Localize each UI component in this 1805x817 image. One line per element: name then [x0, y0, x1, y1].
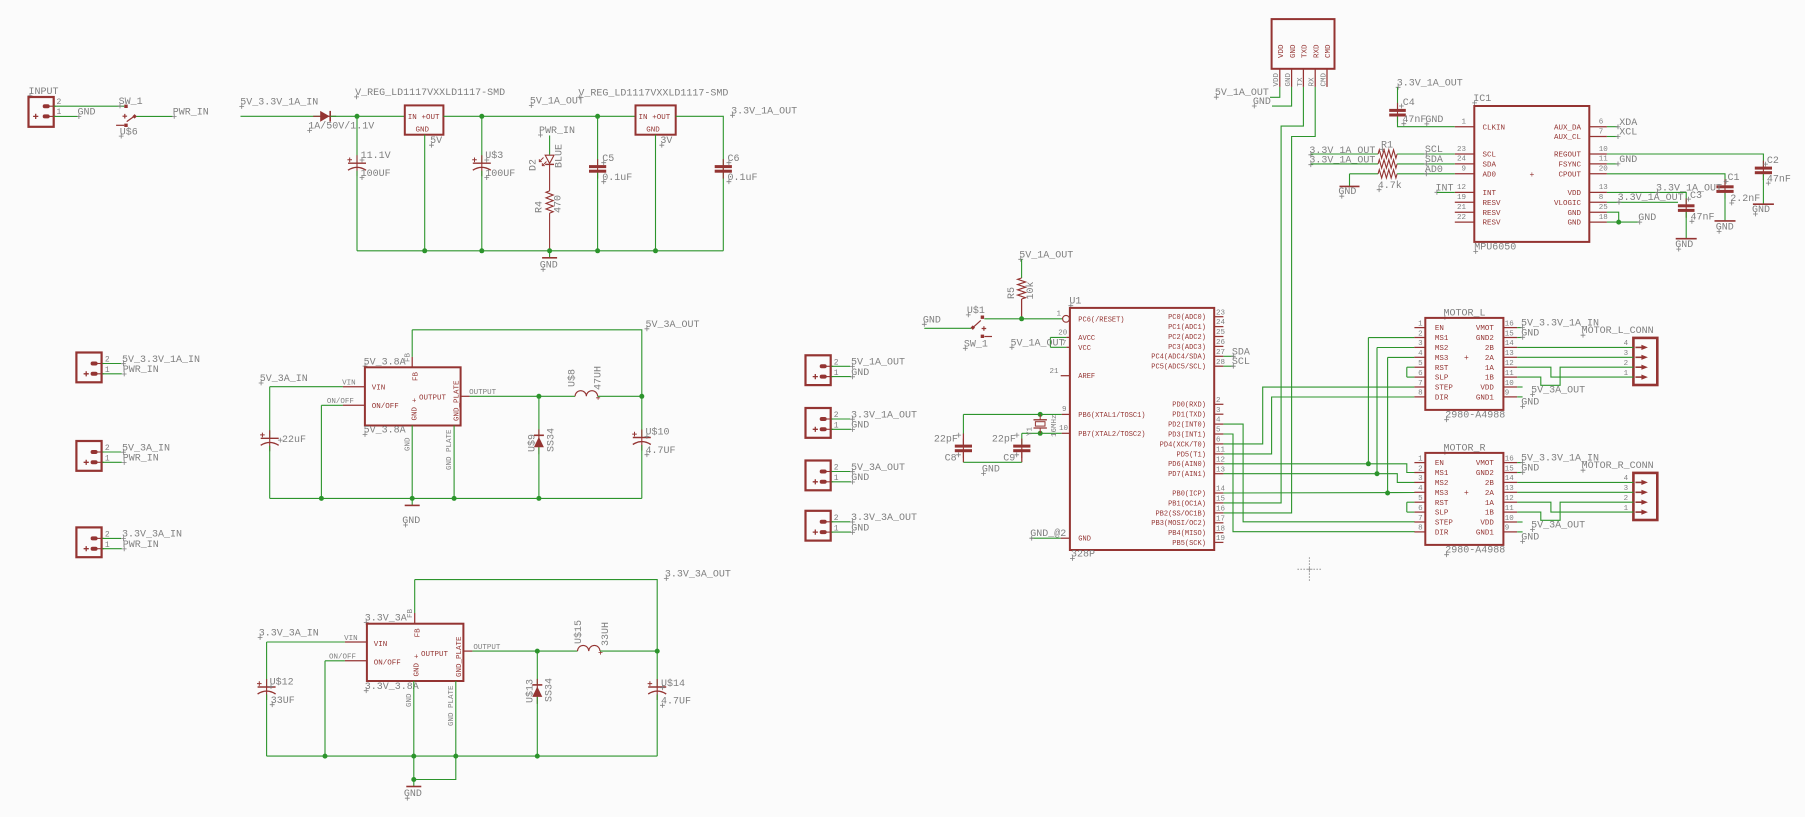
IC1 pin 22 RESV stub [1455, 221, 1475, 223]
wire 3.3V_1A_OUT to cap C4 [1397, 87, 1399, 109]
net label 3.3V_1A_OUT at SDA pullup [1308, 156, 1375, 167]
regulator U$2 pin label GND [416, 127, 430, 135]
wire diode D1 to regulator U$2 IN [330, 115, 405, 117]
wire C8-C9 ground link [963, 461, 1021, 463]
svg-text:2A: 2A [1485, 490, 1495, 498]
net label 5V_1A_OUT [529, 97, 584, 108]
U1 pin 2 PD0(RXD) stub [1214, 403, 1223, 405]
net label PWR_IN at connector [122, 454, 159, 465]
wire to capacitor U$3 top [481, 116, 483, 163]
svg-text:REGOUT: REGOUT [1554, 152, 1582, 160]
wire REGOUT to cap C2 [1607, 154, 1764, 167]
IC U1 ATmega328P body [1070, 308, 1214, 550]
U1 pin label PB7(XTAL2/TOSC2) [1078, 431, 1145, 439]
wire 5V_3A_OUT top rail [412, 330, 642, 397]
pin number 9 [1062, 406, 1067, 414]
driver pin label MS1 [1435, 335, 1449, 343]
svg-text:MOTOR_R_CONN: MOTOR_R_CONN [1582, 461, 1654, 472]
driver pin 3 MS2 stub [1414, 346, 1425, 348]
svg-text:C2: C2 [1767, 156, 1779, 167]
driver pin label GND1 [1476, 530, 1495, 538]
svg-text:INT: INT [1483, 190, 1497, 198]
svg-text:5V_1A_OUT: 5V_1A_OUT [1019, 250, 1073, 261]
driver pin label GND1 [1476, 395, 1495, 403]
svg-text:3.3V_3.8A: 3.3V_3.8A [365, 682, 419, 693]
connector MOTOR_R_CONN designator [1581, 461, 1654, 472]
pin number 12 [1505, 360, 1514, 368]
module pin label GND_PLATE [453, 380, 461, 421]
wire regulator U$4 GND to ground rail [655, 135, 657, 251]
svg-text:PWR_IN: PWR_IN [123, 540, 159, 551]
svg-text:U$13: U$13 [525, 679, 537, 703]
pin number 4 [1418, 350, 1423, 358]
module pin label GND_PLATE [456, 636, 464, 677]
driver pin label MS3 [1435, 490, 1449, 498]
pin number 8 [1418, 525, 1423, 533]
wire connector pin1 to GND label [831, 428, 851, 430]
svg-text:2: 2 [57, 98, 62, 107]
diode designator U$13 [525, 679, 537, 703]
IC1 pin label SCL [1483, 152, 1497, 160]
wire PWR_IN to LED D2 anode [549, 136, 551, 155]
wire diode U$9 anode to ground rail [538, 447, 540, 498]
switch designator U$1 [966, 305, 985, 317]
IC1 pin 25 GND stub [1589, 211, 1607, 213]
svg-text:PC5(ADC5/SCL): PC5(ADC5/SCL) [1151, 364, 1206, 372]
svg-text:FB: FB [413, 371, 421, 381]
svg-text:2: 2 [1216, 397, 1221, 405]
module U$5 value 5V_3.8A [363, 426, 406, 437]
svg-text:SDA: SDA [1483, 162, 1497, 170]
wire 3.3V_1A_OUT to resistor R1a [1311, 153, 1378, 155]
driver pin 9 GND1 stub [1503, 396, 1517, 398]
IC1 pin label FSYNC [1558, 162, 1581, 170]
pin VCC stub [1066, 346, 1070, 348]
svg-text:EN: EN [1435, 460, 1444, 468]
svg-text:15: 15 [1505, 465, 1515, 473]
svg-text:GND +: GND + [414, 653, 422, 676]
pin number 9 [1461, 166, 1466, 174]
buck module 3.3V_3A body [367, 624, 464, 681]
svg-text:11.1V: 11.1V [361, 151, 391, 162]
svg-text:25: 25 [1216, 329, 1226, 337]
svg-text:VDD: VDD [1480, 520, 1494, 528]
wire 2B to connector pin4 [1517, 346, 1633, 348]
svg-text:2980-A4988: 2980-A4988 [1445, 546, 1505, 557]
wire diode U$13 anode to ground rail [536, 697, 538, 756]
wire resistor R1b to IC1 SDA [1397, 163, 1455, 165]
net label 5V_3A_OUT at VDD [1530, 386, 1585, 397]
resistor R5 10k [1018, 278, 1026, 299]
pin number 13 [1505, 485, 1515, 493]
resistor designator R4 [535, 201, 546, 213]
svg-text:3: 3 [1418, 475, 1423, 483]
svg-text:16: 16 [1216, 506, 1226, 514]
inductor U$8 47UH [575, 391, 600, 400]
U1 pin 15 PB1(OC1A) stub [1214, 502, 1223, 504]
wire input cap U$12 top [266, 642, 268, 687]
svg-text:PB0(ICP): PB0(ICP) [1172, 490, 1206, 498]
U1 pin label PC0(ADC0) [1168, 314, 1206, 322]
IC1 pin label AD0 [1483, 171, 1497, 179]
svg-text:GND2: GND2 [1476, 470, 1494, 478]
pin name label ON/OFF [327, 398, 354, 406]
svg-text:1: 1 [1057, 310, 1062, 318]
resistor R1b 4.7k [1378, 160, 1397, 168]
svg-text:5: 5 [1216, 427, 1221, 435]
wire ON/OFF net [325, 660, 345, 662]
net label GND at GND1 [1520, 397, 1539, 408]
connector INPUT [29, 97, 56, 127]
junction XTAL1 at crystal Y1 [1038, 412, 1043, 417]
pin number 8 [1599, 194, 1604, 202]
IC1 pin label RESV [1483, 220, 1502, 228]
connector MOTOR_R_CONN body [1633, 473, 1657, 520]
svg-text:4.7UF: 4.7UF [661, 697, 691, 708]
regulator U$4 name label [577, 88, 728, 99]
svg-text:10k: 10k [1025, 281, 1037, 299]
IC1 pin 21 RESV stub [1455, 211, 1475, 213]
U1 pin 23 PC0(ADC0) stub [1214, 316, 1223, 318]
serial connector pin label GND [1290, 44, 1298, 58]
svg-text:2B: 2B [1485, 345, 1495, 353]
pin number 26 [1216, 339, 1226, 347]
svg-text:47nF: 47nF [1767, 174, 1791, 185]
junction ground rail at C5 [595, 248, 600, 253]
svg-text:PWR_IN: PWR_IN [123, 365, 159, 376]
pin GND stub [1061, 537, 1070, 539]
svg-text:PB2(SS/OC1B): PB2(SS/OC1B) [1155, 510, 1205, 518]
svg-text:PD6(AIN0): PD6(AIN0) [1168, 461, 1206, 469]
pin name label FB [407, 608, 415, 618]
driver pin 15 GND2 stub [1503, 337, 1517, 339]
polarized capacitor U$12 33UF [257, 679, 276, 700]
svg-text:26: 26 [1216, 339, 1226, 347]
net label 5V_3.3V_1A_IN [1520, 318, 1599, 329]
svg-text:7: 7 [1418, 380, 1423, 388]
wire LED D2 cathode to resistor R4 [549, 164, 551, 191]
wire MS1 bus to MOTOR_L MS1 [1368, 337, 1414, 339]
IC value MPU6050 [1473, 243, 1516, 254]
driver pin label RST [1435, 500, 1449, 508]
svg-text:21: 21 [1457, 204, 1467, 212]
svg-text:SS34: SS34 [545, 678, 556, 702]
wire inductor U$15 to output node [600, 650, 657, 652]
wire cap C8 to ground link [962, 452, 964, 462]
LED value BLUE [555, 144, 566, 168]
pin ON/OFF stub [343, 404, 365, 406]
wire RST tie [1407, 366, 1415, 368]
svg-text:4: 4 [1216, 417, 1221, 425]
svg-text:GND: GND [406, 693, 414, 707]
junction 5V_3A_OUT at cap U$10 [639, 394, 644, 399]
svg-text:1B: 1B [1485, 510, 1495, 518]
svg-text:2B: 2B [1485, 480, 1495, 488]
pin number 24 [1216, 319, 1226, 327]
svg-text:MS1: MS1 [1435, 335, 1449, 343]
wire connector pin1 to GND label [831, 481, 851, 483]
net label GND at FSYNC [1616, 155, 1638, 166]
svg-text:CMD: CMD [1320, 72, 1328, 86]
svg-text:1: 1 [1461, 119, 1466, 127]
U1 pin label PD5(T1) [1176, 451, 1205, 459]
pin name label GND PLATE [448, 685, 456, 726]
svg-text:23: 23 [1216, 309, 1226, 317]
svg-text:PWR_IN: PWR_IN [173, 107, 209, 118]
serial connector pin label CMD [1325, 44, 1333, 58]
pin number 21 [1049, 368, 1059, 376]
svg-text:MS3: MS3 [1435, 490, 1449, 498]
svg-text:2: 2 [1418, 330, 1423, 338]
svg-text:25: 25 [1599, 204, 1609, 212]
svg-text:10: 10 [1505, 380, 1515, 388]
junction MS1 bus [1366, 461, 1371, 466]
svg-text:+: + [1530, 171, 1535, 180]
net label PWR_IN at connector [122, 365, 159, 376]
wire ON/OFF net [321, 404, 343, 406]
svg-text:10: 10 [1505, 515, 1515, 523]
U1 pin label PD4(XCK/T0) [1160, 441, 1206, 449]
svg-text:28: 28 [1216, 359, 1225, 367]
connector 3.3V_3A_IN input [76, 527, 104, 557]
capacitor C3 47nF [1678, 198, 1695, 218]
wire AUX_DA to XDA label [1607, 126, 1618, 128]
pin number 13 [1505, 350, 1515, 358]
wire module GND pin to ground rail [413, 681, 415, 756]
svg-text:GND1: GND1 [1476, 395, 1495, 403]
pin name label RX [1309, 77, 1317, 87]
U1 pin 14 PB0(ICP) stub [1214, 492, 1223, 494]
svg-text:R5: R5 [1007, 287, 1018, 299]
driver pin 11 1B stub [1503, 511, 1517, 513]
svg-text:DIR: DIR [1435, 530, 1449, 538]
wire 2B to connector pin4 [1517, 481, 1633, 483]
U1 pin 27 PC4(ADC4/SDA) stub [1214, 355, 1223, 357]
pin number 11 [1505, 370, 1515, 378]
svg-text:VDD: VDD [1567, 190, 1581, 198]
svg-text:MS1: MS1 [1435, 470, 1449, 478]
junction ground rail at U$4 GND [653, 248, 658, 253]
svg-text:5V_1A_OUT: 5V_1A_OUT [1011, 338, 1065, 349]
svg-text:8: 8 [1418, 525, 1423, 533]
svg-text:9: 9 [1461, 166, 1466, 174]
driver pin 7 STEP stub [1414, 386, 1425, 388]
driver pin label 2B [1485, 345, 1495, 353]
wire output node to diode U$9 cathode [538, 396, 540, 435]
pin number 4 [1418, 485, 1423, 493]
svg-text:5V_3A_IN: 5V_3A_IN [260, 374, 308, 385]
svg-text:GND: GND [1290, 44, 1298, 58]
pin number 6 [1599, 119, 1604, 127]
svg-text:13: 13 [1505, 485, 1515, 493]
wire CPOUT to cap C1 [1607, 174, 1725, 186]
svg-text:SCL: SCL [1483, 152, 1497, 160]
pin number 19 [1216, 535, 1225, 543]
module U$5 name 5V_3.8A [363, 357, 406, 368]
pin number 1 [1461, 119, 1466, 127]
capacitor designator C2 [1763, 156, 1779, 167]
IC designator U1 [1068, 297, 1081, 308]
wire connector pin1 to PWR_IN label [102, 373, 122, 375]
svg-text:STEP: STEP [1435, 385, 1454, 393]
wire connector pin1 to PWR_IN label [102, 548, 122, 550]
net label XDA [1616, 118, 1638, 129]
wire resistor R4 to ground rail [549, 213, 551, 251]
capacitor U$14 value 4.7UF [660, 697, 691, 708]
svg-text:AD0: AD0 [1483, 171, 1497, 179]
wire capacitor U$3 to ground rail [481, 171, 483, 251]
svg-text:2: 2 [834, 464, 839, 473]
pin number 12 [1505, 495, 1514, 503]
capacitor C2 value 47nF [1766, 174, 1791, 185]
svg-text:2: 2 [834, 411, 839, 420]
U1 pin label VCC [1078, 345, 1091, 353]
net label 5V_1A_OUT at serial VDD [1214, 88, 1269, 99]
connector MOTOR_L_CONN designator [1581, 326, 1654, 337]
resistor pack value 4.7k [1377, 180, 1402, 192]
ground symbol GND of regulator chain [540, 251, 558, 272]
pin name label OUTPUT [469, 389, 497, 397]
driver pin 14 2B stub [1503, 346, 1517, 348]
junction GND pins of IC1 [1616, 220, 1621, 225]
svg-text:VIN: VIN [344, 635, 358, 643]
pin number 1 of INPUT [57, 108, 62, 117]
svg-text:R1: R1 [1381, 141, 1393, 152]
pin number 9 [1505, 525, 1510, 533]
capacitor designator U$10 [645, 427, 670, 439]
wire connector pin1 to GND label [831, 531, 851, 533]
capacitor designator U$3 [484, 150, 503, 162]
wire AVCC [1050, 336, 1066, 338]
svg-text:1B: 1B [1485, 375, 1495, 383]
svg-text:PD3(INT1): PD3(INT1) [1168, 431, 1206, 439]
svg-text:PD4(XCK/T0): PD4(XCK/T0) [1160, 441, 1206, 449]
wire cap C5 to ground rail [597, 173, 599, 251]
wire connector pin2 to 5V_3A_IN label [102, 451, 121, 453]
wire connector pin2 to 3.3V_3A_OUT label [831, 521, 850, 523]
U1 pin label PC4(ADC4/SDA) [1151, 354, 1206, 362]
connector MOTOR_R_CONN pad 2 [1635, 500, 1648, 505]
svg-text:PB3(MOSI/OC2): PB3(MOSI/OC2) [1151, 520, 1206, 528]
IC1 pin label INT [1483, 190, 1497, 198]
driver pin 2 MS1 stub [1414, 337, 1425, 339]
LED D2 BLUE [539, 155, 554, 166]
wire cap U$14 to ground rail [656, 694, 658, 756]
junction ground rail at U$3 [479, 248, 484, 253]
capacitor designator U$14 [660, 678, 685, 690]
net label PWR_IN at connector [122, 540, 159, 551]
junction ground rail at diode U$13 [535, 754, 540, 759]
capacitor U$3 value 100UF [484, 169, 515, 180]
wire cap C1 to ground [1724, 193, 1726, 221]
pin number 2 [1418, 330, 1423, 338]
connector 3.3V_3A_OUT output [806, 511, 834, 541]
ground symbol GND at C2 [1752, 204, 1774, 217]
IC1 pin 6 AUX_DA stub [1589, 126, 1607, 128]
net label 3.3V_3A_IN [258, 629, 319, 640]
pin AREF stub [1061, 375, 1070, 377]
svg-text:14: 14 [1505, 475, 1515, 483]
junction MS3 bus [1385, 491, 1390, 496]
wire U1 GND net [1031, 537, 1061, 539]
U1 pin 18 PB4(MISO) stub [1214, 532, 1223, 534]
wire AUX_CL to XCL label [1607, 136, 1618, 138]
voltage regulator U$4 LD1117 body [636, 105, 676, 134]
pin number 21 [1457, 204, 1467, 212]
IC1 pin label RESV [1483, 200, 1502, 208]
net label SDA [1424, 155, 1443, 166]
svg-text:VMOT: VMOT [1476, 325, 1495, 333]
svg-text:2: 2 [105, 356, 110, 365]
pin number 15 [1216, 496, 1226, 504]
wire crystal net XTAL2 [1022, 432, 1062, 434]
svg-text:5V_3A_OUT: 5V_3A_OUT [1531, 386, 1585, 397]
pin number 5 [1418, 360, 1423, 368]
wire ground rail down to GND loop [413, 756, 415, 779]
capacitor U$10 value 4.7UF [645, 446, 676, 457]
regulator U$4 pin label OUT [652, 114, 671, 122]
U1 pin label PB4(MISO) [1168, 530, 1206, 538]
driver pin label EN [1435, 460, 1444, 468]
wire TX to U1 PB1 [1223, 87, 1303, 503]
regulator U$4 pin label GND [646, 127, 660, 135]
pin AVCC stub [1066, 336, 1070, 338]
svg-text:GND: GND [1285, 72, 1293, 86]
module pin label VIN [372, 385, 386, 393]
module pin label FB [413, 371, 421, 381]
wire 1B to connector pin2 [1517, 367, 1633, 385]
IC1 pin 9 AD0 stub [1455, 173, 1475, 175]
svg-text:1: 1 [105, 455, 110, 464]
driver pin 9 GND1 stub [1503, 531, 1517, 533]
U1 pin 11 PD5(T1) stub [1214, 453, 1223, 455]
capacitor C5 value 0.1uF [601, 173, 632, 184]
svg-text:VDD: VDD [1273, 72, 1281, 86]
driver pin label MS2 [1435, 345, 1449, 353]
wire RST-SLP vertical tie [1406, 502, 1408, 512]
net label SCL at U1 [1231, 357, 1250, 368]
driver pin 13 2A stub [1503, 356, 1517, 358]
module pin label OUTPUT [421, 651, 449, 659]
svg-text:47nF: 47nF [1691, 213, 1715, 224]
capacitor designator U$12 [269, 677, 294, 689]
wire 5V_1A_OUT rail [443, 115, 635, 117]
junction ground rail at GND pin [410, 496, 415, 501]
wire XTAL2 down to cap C9 [1021, 433, 1023, 444]
svg-text:RST: RST [1435, 500, 1449, 508]
ground symbol GND at R1c [1338, 186, 1359, 199]
pin number 25 [1599, 204, 1609, 212]
svg-text:RESV: RESV [1483, 210, 1502, 218]
pin number 10 [1505, 515, 1515, 523]
pin PB6 stub [1062, 413, 1070, 415]
wire MOTOR_L MS1 vertical bus [1367, 338, 1369, 464]
svg-text:GND: GND [1078, 536, 1091, 544]
svg-text:+OUT: +OUT [652, 114, 671, 122]
wire 5V_1A_OUT to resistor R5 [1021, 259, 1023, 278]
wire PC5 to SCL label [1223, 365, 1234, 367]
module pin label OUTPUT [419, 395, 447, 403]
net label GND at GND1 [1520, 532, 1539, 543]
driver pin label VDD [1480, 385, 1494, 393]
pin number 18 [1599, 214, 1608, 222]
wire INPUT pin1 to GND label [54, 115, 78, 117]
wire U1 PD6 to MS1 bus [1223, 464, 1414, 473]
net label 3.3V_1A_OUT at IC1 VDD [1655, 183, 1722, 194]
pin number 2 [834, 514, 839, 523]
wire connector pin1 to GND label [831, 376, 851, 378]
wire FSYNC to GND label [1607, 163, 1618, 165]
